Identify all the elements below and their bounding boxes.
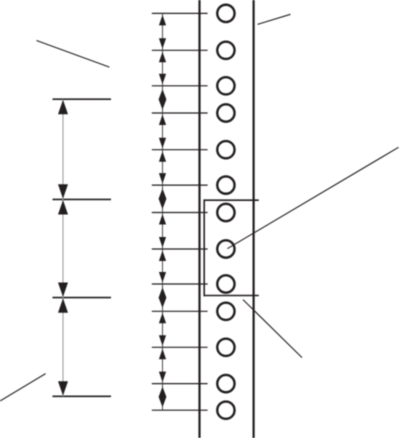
arrowhead pair (merged diamond) for pitch H3-H4 [159, 89, 167, 110]
down arrowhead for pitch H10-H11 [159, 335, 166, 346]
up arrowhead for pitch H4-H5 [159, 115, 166, 126]
extension tick at hole H4 [152, 112, 208, 114]
rack-unit dimension arrowheads [58, 100, 68, 396]
extension tick at hole H9 [152, 283, 208, 285]
extension tick at hole H7 [152, 212, 208, 214]
down arrowhead for pitch H2-H3 [159, 74, 166, 85]
leader line from right edge to hole H8 [227, 147, 398, 248]
extension tick at hole H8 [152, 248, 208, 250]
rack-unit boundary tick T4 [53, 395, 112, 397]
hole H10 [217, 303, 234, 320]
hole H5 [217, 141, 234, 158]
down arrowhead for pitch H5-H6 [159, 173, 166, 184]
down arrowhead for rack-unit U1 [58, 184, 68, 199]
up arrowhead for pitch H8-H9 [159, 251, 166, 262]
down arrowhead for pitch H1-H2 [159, 38, 166, 49]
callout box around one hole group [204, 199, 259, 296]
up arrowhead for rack-unit U3 [58, 298, 68, 313]
down arrowhead for rack-unit U3 [58, 381, 68, 396]
down arrowhead for pitch H4-H5 [159, 138, 166, 149]
mounting holes H1-H13 [217, 5, 234, 419]
hole H4 [217, 104, 234, 121]
extension tick at hole H3 [152, 85, 208, 87]
rack-unit dimension line [62, 99, 64, 396]
hole H9 [217, 275, 234, 292]
extension tick at hole H12 [152, 383, 208, 385]
hole H12 [217, 375, 234, 392]
rack-unit boundary ticks [53, 99, 112, 396]
hole H6 [217, 176, 234, 193]
callout box left edge [203, 199, 205, 296]
leader line bottom-right from callout box [243, 300, 302, 358]
up arrowhead for pitch H7-H8 [159, 214, 166, 225]
rack rail right edge [253, 0, 255, 438]
arrowhead pair (merged diamond) for pitch H12-H13 [159, 387, 167, 408]
up arrowhead for pitch H2-H3 [159, 52, 166, 63]
up arrowhead for rack-unit U2 [58, 200, 68, 215]
leader line bottom-left [0, 374, 46, 401]
arrowhead pair (merged diamond) for pitch H6-H7 [159, 189, 167, 210]
up arrowhead for rack-unit U1 [58, 100, 68, 115]
up arrowhead for pitch H10-H11 [159, 313, 166, 324]
hole H1 [217, 5, 234, 22]
hole-center extension ticks [152, 13, 208, 410]
callout box top edge [204, 199, 259, 201]
extension tick at hole H5 [152, 149, 208, 151]
up arrowhead for pitch H5-H6 [159, 151, 166, 162]
up arrowhead for pitch H11-H12 [159, 349, 166, 360]
hole H7 [217, 204, 234, 221]
hole H8 [217, 240, 234, 257]
leader line top-left [37, 41, 110, 68]
hole H13 [217, 402, 234, 419]
hole H3 [217, 77, 234, 94]
hole-pitch dimension arrowheads [159, 15, 167, 407]
hole-pitch dimension line [162, 13, 164, 410]
leader line top-right [258, 14, 291, 24]
rack-unit boundary tick T1 [53, 98, 112, 100]
up arrowhead for pitch H1-H2 [159, 15, 166, 26]
callout box bottom edge [204, 295, 259, 297]
rack-unit boundary tick T3 [53, 297, 112, 299]
rack rail left edge [198, 0, 200, 438]
hole H11 [217, 339, 234, 356]
down arrowhead for pitch H8-H9 [159, 272, 166, 283]
hole H2 [217, 42, 234, 59]
extension tick at hole H10 [152, 310, 208, 312]
down arrowhead for rack-unit U2 [58, 283, 68, 298]
extension tick at hole H2 [152, 49, 208, 51]
rack-unit boundary tick T2 [53, 198, 112, 200]
arrowhead pair (merged diamond) for pitch H9-H10 [159, 287, 167, 308]
extension tick at hole H6 [152, 184, 208, 186]
down arrowhead for pitch H11-H12 [159, 372, 166, 383]
down arrowhead for pitch H7-H8 [159, 237, 166, 248]
callout box right edge [253, 199, 255, 296]
extension tick at hole H11 [152, 346, 208, 348]
extension tick at hole H13 [152, 409, 208, 411]
extension tick at hole H1 [152, 12, 208, 14]
